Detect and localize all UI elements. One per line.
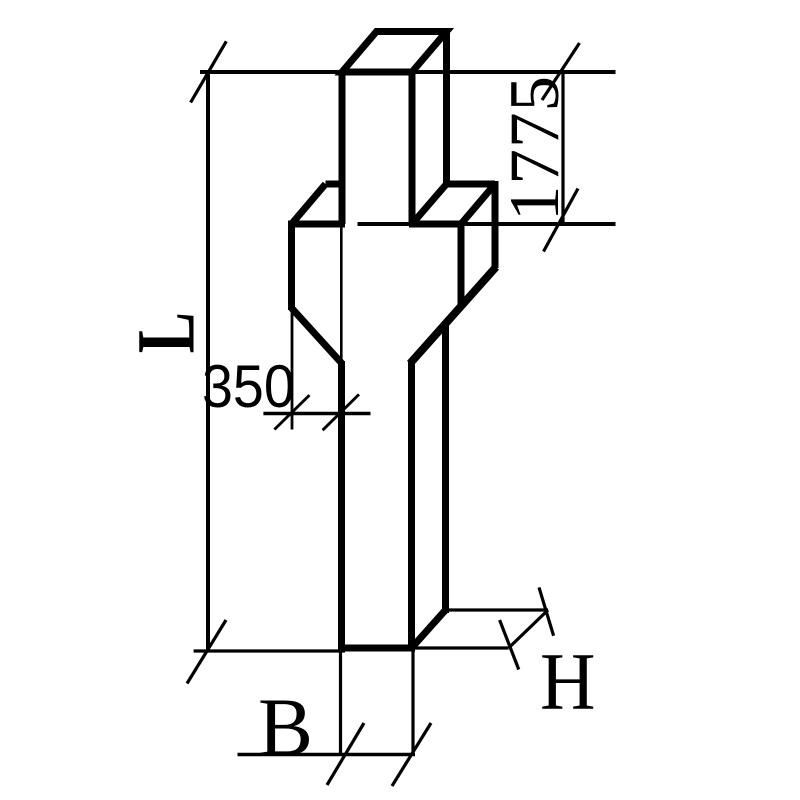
svg-text:H: H	[540, 636, 596, 727]
svg-text:350: 350	[202, 354, 295, 420]
svg-text:1775: 1775	[496, 75, 574, 221]
svg-text:B: B	[258, 681, 313, 773]
svg-text:L: L	[120, 312, 212, 353]
